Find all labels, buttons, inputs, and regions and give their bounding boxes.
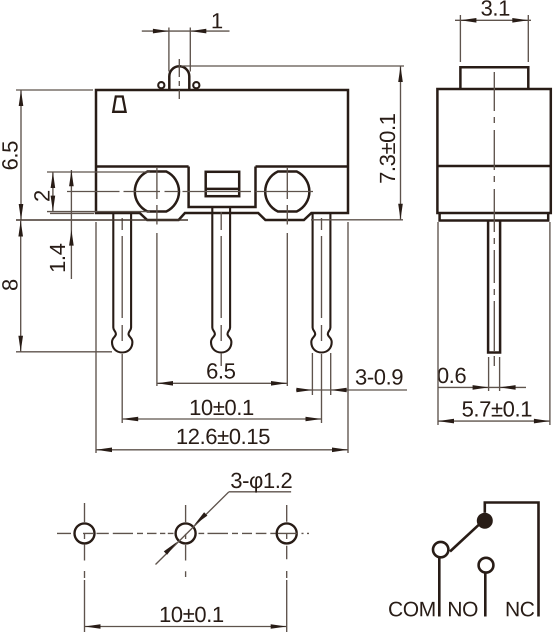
dim 7.3 arrow bottom [398, 204, 403, 220]
pcb hole middle [176, 523, 196, 543]
dim 10p arrow left [85, 624, 101, 629]
front view cover parting line right [256, 165, 349, 168]
schematic COM contact circle [433, 542, 448, 557]
dim 1.4 arrow bottom [69, 230, 74, 246]
dim 3.1 arrow right [512, 18, 528, 23]
mounting hole right [265, 172, 309, 212]
dim 1 arrow right [190, 29, 206, 34]
dim 0.6 extension right [499, 357, 501, 391]
schematic COM lead [438, 557, 441, 616]
dim 10f arrow right [306, 417, 322, 422]
dim 0.9 line [296, 389, 407, 391]
dim 0.9 arrow right [331, 388, 347, 393]
dim 1 arrow left [153, 29, 169, 34]
schematic label NC [507, 602, 534, 617]
dim 12.6 arrow left [96, 448, 112, 453]
dim 5.7 extension right [549, 222, 551, 425]
pin 1 [112, 213, 132, 353]
side view pin [488, 221, 500, 353]
schematic NO contact circle [479, 558, 494, 573]
dim 7.3 line [400, 66, 402, 220]
front view body outline [96, 90, 348, 220]
pin 2 centerline tail [220, 353, 222, 366]
dim 3.1 line [455, 19, 531, 21]
dim 8 extension line bottom [16, 351, 112, 353]
dim 3.1 extension left [459, 15, 461, 62]
schematic label COM [389, 602, 434, 617]
plunger ear right [193, 82, 199, 88]
dim 8 arrow top [18, 221, 23, 237]
dim 2 extension line bottom [47, 211, 150, 213]
dim 0.9 extension right [330, 353, 332, 395]
pcb hole right [277, 523, 297, 543]
pcb leader arrow upper [194, 512, 207, 525]
dim 0.9 extension left [311, 353, 313, 395]
dim 10p extension right [286, 571, 288, 632]
side view button [460, 67, 528, 89]
dim 10p line [85, 626, 287, 628]
common terminal plate divider [206, 188, 240, 191]
dim 10f text [191, 400, 253, 416]
dim 1 text [213, 13, 223, 28]
dim 0.6 arrow right [500, 385, 516, 390]
dim 1 extension line right [189, 28, 191, 72]
schematic NC wire [485, 503, 539, 617]
dim 5.7 arrow right [534, 419, 550, 424]
dim 8 text [2, 280, 18, 290]
dim 6.5b arrow right [271, 381, 287, 386]
dim 1.4 line [70, 170, 72, 279]
plunger centerline [178, 59, 180, 99]
dim 1 extension line left [168, 28, 170, 72]
dim 10f extension right [321, 354, 323, 423]
dim 6.5 arrow bottom [19, 204, 24, 220]
dim 2 extension line top [47, 171, 150, 173]
schematic NC contact dot [477, 513, 493, 529]
dim 2 arrow top [51, 172, 56, 188]
dim 5.7 extension left [437, 222, 439, 425]
side view parting line [437, 165, 550, 168]
dim 2 text [34, 191, 49, 201]
dim 2 line [52, 172, 54, 212]
dim 0.9 arrow left [296, 388, 312, 393]
dim 7.3 extension line bottom [311, 219, 403, 221]
hole right vertical centerline [286, 167, 288, 386]
dim 12.6 text [178, 429, 270, 445]
dim 12.6 extension right [347, 222, 349, 453]
schematic label NO [449, 602, 477, 617]
dim 6.5 extension line top [16, 89, 93, 91]
pcb leader arrow lower [164, 542, 177, 555]
dim 3.1 text [481, 0, 509, 16]
plunger ear left [158, 82, 164, 88]
dim 3.1 arrow left [460, 18, 476, 23]
schematic NO lead [484, 573, 487, 617]
front view cover parting line left [96, 165, 189, 168]
dim 0.6 text [438, 368, 466, 384]
pcb hole right vertical centerline [286, 505, 288, 559]
dim 2 arrow bottom [51, 196, 56, 212]
dim 7.3 arrow top [398, 66, 403, 82]
pcb leader text [231, 473, 292, 493]
dim 8 line [20, 220, 22, 352]
dim 0.6 arrow left [473, 385, 489, 390]
dim 12.6 extension left [95, 222, 97, 453]
dim 6.5 text [2, 142, 18, 170]
extension line y=213 left stub [50, 212, 94, 214]
dim 10p arrow right [271, 624, 287, 629]
dim 5.7 line [438, 420, 550, 422]
pin 2 [211, 207, 231, 353]
dim 6.5 line [20, 90, 22, 220]
holes horizontal centerline [67, 191, 313, 193]
mounting hole left [135, 172, 179, 212]
plunger [169, 66, 189, 90]
dim 1.4 arrow top [69, 170, 74, 186]
dim 0.6 extension left [488, 357, 490, 391]
dim 5.7 text [463, 401, 532, 417]
pcb hole left vertical centerline [84, 503, 86, 561]
dim 3.1 extension right [527, 15, 529, 62]
dim 8 arrow bottom [18, 336, 23, 352]
side view bottom strip [440, 213, 549, 221]
side view centerline [493, 72, 495, 366]
pin 2 centerline [220, 212, 222, 341]
dim 1 line [142, 30, 230, 32]
pin 3 [311, 213, 331, 353]
pcb hole left [75, 523, 95, 543]
mold mark [113, 97, 125, 112]
shared extension line y=220 [16, 219, 188, 221]
dim 7.3 extension line top [181, 65, 404, 67]
dim 10p extension left [84, 571, 86, 632]
pin 3 centerline [321, 218, 323, 341]
dim 12.6 line [96, 449, 348, 451]
pcb leader underline [229, 491, 291, 493]
dim 6.5b line [157, 382, 287, 384]
schematic lever [450, 524, 479, 551]
dim 7.3 text [380, 114, 396, 183]
dim 5.7 arrow left [438, 419, 454, 424]
dim 6.5 arrow top [19, 90, 24, 106]
common terminal plate [206, 172, 240, 196]
dim 10f arrow left [122, 417, 138, 422]
dim 10f line [122, 418, 321, 420]
pin 1 centerline [121, 218, 123, 341]
dim 10p text [161, 607, 223, 623]
dim 6.5b text [207, 363, 235, 379]
dim 10f extension left [121, 354, 123, 423]
dim 12.6 arrow right [332, 448, 348, 453]
dim 1.4 text [50, 244, 65, 271]
pcb leader diagonal [156, 492, 229, 565]
hole left vertical centerline [156, 167, 158, 386]
dim 0.6 line [438, 386, 526, 388]
pcb horizontal centerline [57, 532, 309, 534]
pcb hole middle vertical centerline [185, 505, 187, 577]
dim 0.9 text [356, 369, 403, 385]
terminal window recess [189, 167, 256, 208]
side view body [437, 89, 550, 213]
dim 6.5b arrow left [157, 381, 173, 386]
